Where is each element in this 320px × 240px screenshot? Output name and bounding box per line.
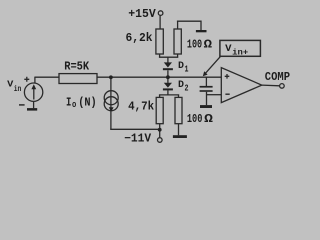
svg-text:2: 2 <box>185 83 189 93</box>
svg-text:+15V: +15V <box>128 8 156 21</box>
svg-text:100: 100 <box>187 39 202 52</box>
svg-text:D: D <box>178 80 184 91</box>
svg-text:6,2k: 6,2k <box>126 32 153 45</box>
svg-text:o: o <box>72 99 77 110</box>
svg-text:4,7k: 4,7k <box>128 101 154 114</box>
svg-text:COMP: COMP <box>265 71 290 84</box>
svg-text:in+: in+ <box>232 48 248 58</box>
svg-text:D: D <box>178 61 184 72</box>
svg-text:100: 100 <box>187 113 203 126</box>
svg-text:V: V <box>225 43 232 55</box>
svg-text:in: in <box>14 85 22 94</box>
svg-text:1: 1 <box>185 64 189 74</box>
svg-text:R=5K: R=5K <box>64 60 89 73</box>
svg-text:−11V: −11V <box>124 133 151 146</box>
svg-text:V: V <box>7 78 14 89</box>
svg-text:Ω: Ω <box>204 39 213 52</box>
svg-text:(N): (N) <box>78 97 97 110</box>
svg-text:Ω: Ω <box>204 113 213 126</box>
svg-text:I: I <box>66 97 71 110</box>
